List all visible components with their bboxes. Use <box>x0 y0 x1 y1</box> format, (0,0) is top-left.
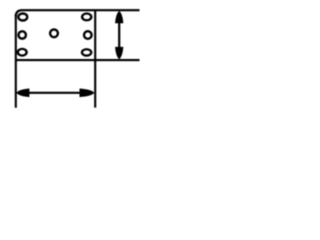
hole top-left <box>17 12 28 22</box>
width dimension arrowhead pointing left <box>16 89 29 98</box>
hole bottom-right <box>81 48 93 57</box>
width dimension arrowhead pointing right <box>80 89 95 98</box>
height dimension arrowhead pointing up <box>115 11 123 23</box>
plate left edge extended down as dimension extension line <box>15 14 17 108</box>
hole top-right <box>81 12 93 21</box>
height dimension line shaft <box>118 18 120 52</box>
plate bottom edge extended right as dimension extension line <box>16 59 140 61</box>
width dimension line shaft <box>25 92 86 94</box>
plate right edge extended down as dimension extension line <box>94 10 96 107</box>
hole mid-left <box>17 30 27 40</box>
plate top edge with rounded top-left corner, extended right as dimension extension line <box>16 10 140 16</box>
height dimension arrowhead pointing down <box>115 47 123 59</box>
hole bottom-left <box>17 48 28 57</box>
hole center <box>49 28 59 38</box>
hole mid-right <box>83 30 93 40</box>
